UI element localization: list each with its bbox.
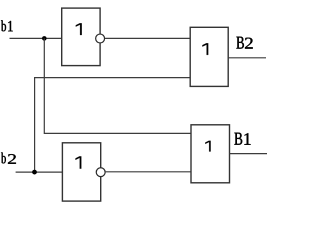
inversion bubble of U4 <box>96 168 105 177</box>
label 1 of U2 <box>202 43 208 55</box>
wire b1 input <box>10 37 62 39</box>
wire U2 output <box>228 57 266 59</box>
wire b2 branch up then right to gate U2 lower input <box>35 78 191 173</box>
wire U3 output <box>230 153 268 155</box>
node junction J2 on b2 wire <box>32 170 37 175</box>
output label B2 <box>236 37 252 49</box>
wire b1 branch down then right to gate U3 upper input <box>44 38 191 133</box>
input label b2 <box>1 153 16 164</box>
gate U3 box <box>191 125 230 183</box>
label 1 of U3 <box>205 141 210 152</box>
output label B1 <box>234 133 250 145</box>
inverter U4 box <box>62 143 100 201</box>
input label b1 <box>1 20 13 31</box>
inversion bubble of U1 <box>96 34 105 43</box>
label 1 of U4 <box>75 156 81 168</box>
label 1 of U1 <box>76 23 82 35</box>
gate U2 box <box>190 27 228 86</box>
node junction J1 on b1 wire <box>42 36 47 41</box>
wire b2 input <box>16 171 63 173</box>
wire U4 output to gate U3 lower input <box>106 171 191 173</box>
inverter U1 box <box>62 8 100 66</box>
wire U1 output to gate U2 upper input <box>105 37 190 39</box>
